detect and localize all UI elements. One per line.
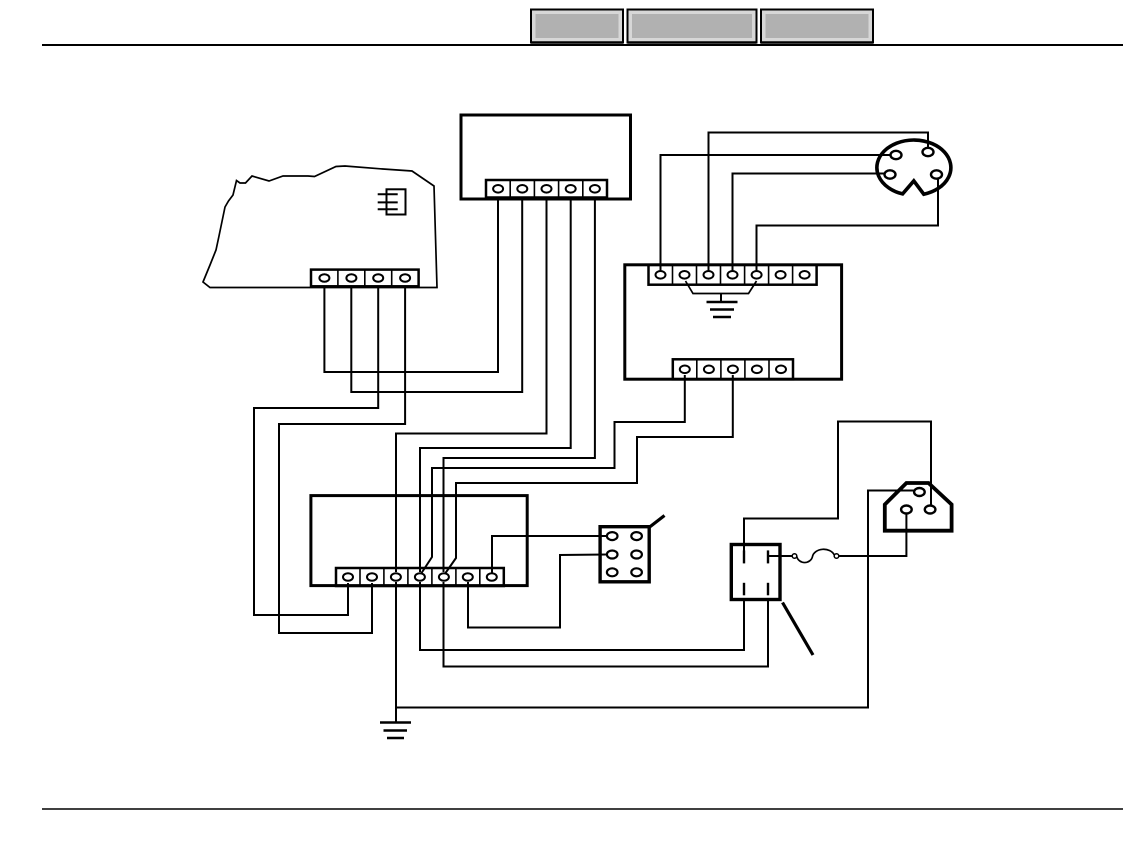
top horizontal rule [42,44,1123,46]
wire ground node to plug pin top [396,491,914,708]
junction box terminal strip (7 terminals) [336,568,504,586]
switch lever on block [649,516,665,528]
wire flex lead to plug pin left [839,515,907,557]
wire junction T5 to connector prong [444,582,769,667]
6-pin connector block [600,527,649,582]
wire body T1 to control T1 [324,198,498,372]
wire control T5 to junction T5 [444,198,595,572]
connector symbol inside body (3-pin) [378,189,406,214]
wire connector to plug pin right [744,422,931,553]
control unit box (top) [461,115,631,199]
plug pin right [925,506,936,514]
DIN pin 4 (bottom right) [931,170,942,178]
DIN pin 3 (bottom left) [885,170,896,178]
wire body T3 to junction T1 [254,286,378,615]
round DIN connector P1 [877,140,951,194]
flexible lead (wavy conductor) [797,549,835,562]
wire amplifier upper T3 to DIN pin 2 [709,133,929,272]
component outline (vehicle body panel) [203,166,437,288]
wire amplifier lower T3 to junction T5 [446,375,733,573]
block pin 3 [607,551,618,559]
block pin 5 [607,568,618,576]
bottom horizontal rule [42,808,1123,810]
wire connector prong to flex lead [769,555,792,557]
lever mark below connector [783,603,814,656]
mains plug P2 [885,483,952,531]
amplifier lower terminal strip (5 terminals) [673,359,793,379]
toolbar button 1 [531,10,623,43]
toolbar button 3 [761,10,873,43]
wire control T4 to junction T4 [420,198,571,572]
wire control T3 to junction T3 [396,198,547,572]
wire amplifier lower T1 to junction T4 [422,375,685,573]
internal ground of amplifier [686,281,757,317]
wire amplifier upper T5 to DIN pin 4 [757,180,939,272]
toolbar button 2 [628,10,757,43]
DIN pin 2 (top right) [923,148,934,156]
terminal strip of top control unit (5 terminals) [486,180,607,198]
wire amplifier upper T1 to DIN pin 1 [661,155,891,271]
connector contacts (4 prongs) [744,550,768,595]
terminal strip on body (4 terminals) [311,270,419,287]
plug pin top [914,488,925,496]
plug pin left [901,506,912,514]
block pin 6 [631,568,642,576]
inline connector box [731,545,780,600]
ground symbol (bottom) [380,723,411,739]
amplifier box (middle right) [625,265,842,379]
flex lead terminal circle left [792,554,797,559]
wire body T4 to junction T2 [279,286,405,633]
wire junction T3 to ground [395,582,397,723]
junction box (bottom left) [311,496,527,586]
wire junction T4 to connector prong [420,582,744,650]
block pin 2 [631,532,642,540]
flex lead terminal circle right [834,554,839,559]
wire body T2 to control T2 [351,198,522,392]
DIN pin 1 (top left) [891,151,902,159]
wire junction T7 to block pin 1 [492,536,607,573]
wire junction T6 to block pin 3 [468,555,607,628]
block pin 1 [607,532,618,540]
block pin 4 [631,551,642,559]
wire amplifier upper T4 to DIN pin 3 [733,174,885,272]
amplifier upper terminal strip (7 terminals) [649,265,817,285]
